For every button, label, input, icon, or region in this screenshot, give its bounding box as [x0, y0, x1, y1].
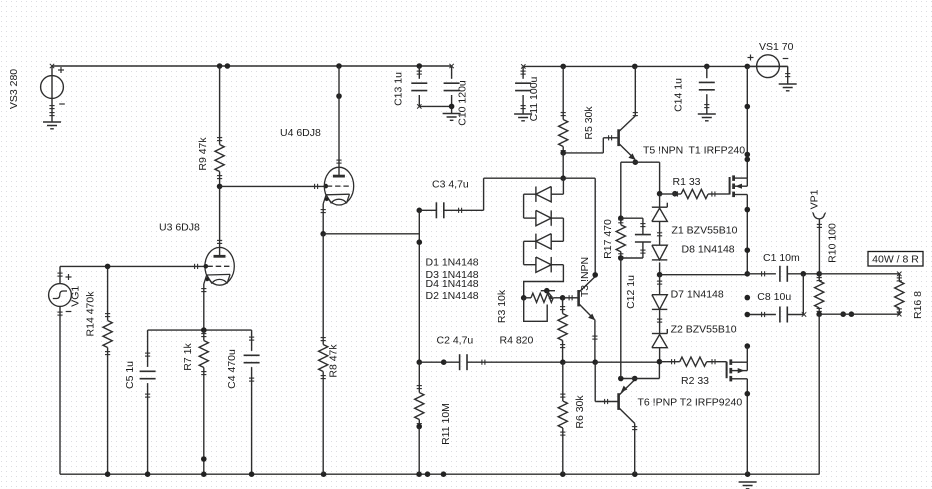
signal source VG1: [49, 266, 82, 474]
node C2 left: [441, 359, 447, 365]
svg-text:C14 1u: C14 1u: [673, 78, 685, 112]
node output-diodes: [657, 272, 663, 278]
wire R5 node down: [562, 153, 564, 178]
wire U4 plate: [336, 66, 341, 167]
capacitor C3 4,7u: [417, 179, 484, 219]
svg-text:R7 1k: R7 1k: [182, 343, 194, 371]
wire cathode node: [148, 329, 252, 331]
node rail-U4 plate: [336, 63, 342, 99]
node rail-R5: [560, 64, 566, 70]
voltage source VS3: [8, 66, 65, 122]
node Z2-R2: [657, 359, 663, 365]
svg-text:C10 120u: C10 120u: [457, 80, 469, 126]
svg-text:VP1: VP1: [809, 189, 821, 209]
transistor T3 NPN: [563, 257, 596, 320]
wire top rail V+ 70V: [521, 64, 788, 68]
node C2-R4-R6: [560, 359, 566, 365]
svg-text:C1 10m: C1 10m: [763, 252, 800, 264]
wire T2 drain seg: [746, 346, 748, 362]
resistor R5 30k: [559, 66, 595, 153]
svg-text:R1 33: R1 33: [673, 176, 701, 188]
svg-text:D8 1N4148: D8 1N4148: [682, 244, 735, 256]
zener Z1 BZV55B10: [652, 194, 738, 246]
resistor R11 10M: [415, 362, 452, 445]
svg-text:Z1 BZV55B10: Z1 BZV55B10: [672, 225, 738, 237]
wire to R16: [819, 272, 901, 276]
capacitor C12 1u: [621, 218, 651, 309]
svg-text:40W / 8 R: 40W / 8 R: [872, 254, 919, 266]
wire output return: [818, 314, 820, 474]
node C10 bottom: [449, 104, 455, 110]
svg-text:U3 6DJ8: U3 6DJ8: [159, 222, 200, 234]
svg-text:C5 1u: C5 1u: [124, 361, 136, 389]
wire top rail V+ 280V: [50, 64, 452, 68]
wire U3 cathode: [201, 284, 206, 330]
ground of VS3: [43, 122, 61, 129]
svg-text:VS1 70: VS1 70: [759, 41, 794, 53]
wire C2 row: [419, 361, 443, 363]
node R17 bottom: [618, 255, 624, 261]
node T1 source seg: [745, 207, 751, 301]
svg-text:D2 1N4148: D2 1N4148: [426, 290, 479, 302]
node T3e-T6 base: [592, 359, 598, 365]
wire cathode to C-row: [323, 233, 419, 235]
node rail-C13: [417, 63, 423, 69]
node T2 top: [745, 343, 751, 349]
capacitor C8 10u: [747, 274, 806, 323]
wire U4 cathode: [321, 204, 326, 234]
resistor R8 47k: [319, 234, 340, 474]
capacitor C4 470u: [226, 330, 260, 474]
svg-text:C3 4,7u: C3 4,7u: [432, 179, 469, 191]
node rail-R9: [217, 63, 230, 69]
node R17 bottom rail: [618, 376, 624, 382]
resistor R16 8: [895, 274, 924, 319]
diode D7 1N4148: [652, 275, 724, 334]
ground of C10: [443, 114, 461, 121]
svg-text:VS3 280: VS3 280: [8, 69, 20, 109]
node rail-C4: [249, 471, 255, 477]
capacitor C1 10m: [747, 252, 819, 282]
svg-text:C4 470u: C4 470u: [226, 349, 238, 389]
node mid: [417, 239, 423, 245]
resistor R2 33: [659, 357, 726, 387]
svg-text:C12 1u: C12 1u: [625, 275, 637, 309]
svg-text:VG1: VG1: [70, 286, 82, 307]
label U4: [280, 127, 321, 139]
svg-text:R14 470k: R14 470k: [85, 291, 97, 337]
capacitor C10 120u: [444, 64, 469, 126]
wire R10 bottom row: [819, 312, 901, 316]
node rail-R11: [416, 471, 446, 477]
svg-text:Z2 BZV55B10: Z2 BZV55B10: [671, 324, 737, 336]
diode D2 1N4148: [524, 210, 564, 225]
wire C3 to node: [484, 178, 596, 210]
wire row to T3e node: [563, 361, 595, 363]
svg-text:R17 470: R17 470: [602, 219, 614, 259]
node R7 lower: [201, 456, 207, 462]
wire D4 to pot: [524, 265, 564, 298]
wire R11 to rail: [418, 427, 420, 475]
node rail-T1 drain: [745, 64, 751, 70]
resistor R1 33: [660, 176, 730, 199]
node R3-R4-T3 base: [560, 295, 566, 301]
node C1-C8: [801, 271, 807, 277]
svg-text:T3 !NPN: T3 !NPN: [579, 257, 591, 297]
resistor R6 30k: [558, 362, 586, 474]
capacitor C14 1u: [673, 66, 715, 114]
wire D3-D4: [523, 241, 525, 264]
mosfet T1 IRFP240: [730, 175, 748, 273]
svg-text:C13 1u: C13 1u: [393, 72, 405, 106]
mosfet T2 IRFP9240: [727, 359, 748, 474]
capacitor C13 1u: [393, 66, 428, 109]
wire ground rail: [60, 473, 819, 475]
node T3 collector: [592, 272, 598, 278]
label D2: [426, 290, 479, 302]
wire D1-D2: [523, 194, 525, 218]
svg-text:D4 1N4148: D4 1N4148: [426, 278, 479, 290]
svg-text:D1 1N4148: D1 1N4148: [426, 256, 479, 268]
svg-text:R10 100: R10 100: [827, 223, 839, 263]
svg-text:R8 47k: R8 47k: [328, 344, 340, 378]
wire R17-T6: [620, 258, 622, 379]
node rail-R8: [321, 471, 327, 477]
transistor T6 PNP: [595, 362, 742, 474]
triode U4: [323, 167, 353, 205]
node rail-R14: [105, 471, 111, 477]
potentiometer R3 10k: [496, 288, 563, 323]
resistor R4 820: [558, 298, 567, 362]
probe VP1: [809, 189, 839, 273]
resistor R17 470: [602, 219, 625, 259]
wire U3 grid input: [60, 264, 208, 269]
node U3 cathode-R7: [201, 327, 207, 333]
wire U3 plate: [217, 186, 222, 247]
resistor R10 100: [815, 274, 824, 314]
ground of C11: [514, 114, 532, 121]
label R4: [500, 335, 534, 347]
svg-text:C8 10u: C8 10u: [757, 291, 791, 303]
svg-text:R5 30k: R5 30k: [583, 106, 595, 140]
triode U3: [204, 247, 235, 285]
resistor R9 47k: [197, 66, 224, 186]
load box 40W/8R: [868, 252, 923, 267]
node rail-ground: [745, 471, 751, 477]
node R9-U3 plate-U4 grid: [217, 184, 223, 190]
svg-text:R16 8: R16 8: [912, 291, 924, 319]
label D3: [426, 269, 479, 281]
wire node down to T3 collector: [594, 178, 596, 275]
node rail-R7: [201, 471, 207, 477]
capacitor C11 100u: [515, 66, 540, 121]
wire D1 feed: [562, 178, 564, 194]
resistor R14 470k: [85, 266, 113, 474]
node R5-T5 base: [560, 150, 566, 156]
wire D2-D3: [562, 218, 564, 241]
diode D8 1N4148: [652, 244, 735, 275]
ground of C14: [698, 114, 716, 121]
transistor T5 NPN: [563, 66, 745, 160]
wire U3 plate node to U4 grid: [220, 184, 329, 189]
node rail-C14: [704, 64, 710, 70]
resistor R7 1k: [182, 330, 208, 474]
svg-text:R3 10k: R3 10k: [496, 289, 508, 323]
diode D4 1N4148: [524, 257, 564, 272]
wire C3 left down: [418, 210, 420, 362]
svg-text:R11 10M: R11 10M: [440, 403, 452, 445]
node output: [745, 271, 751, 277]
node U4 cathode: [320, 231, 326, 237]
node d1: [745, 104, 751, 110]
zener Z2 BZV55B10: [652, 324, 737, 362]
label U3: [159, 222, 200, 234]
svg-text:R4 820: R4 820: [500, 335, 534, 347]
capacitor C5 1u: [124, 330, 156, 474]
wire diode node to output: [660, 274, 748, 276]
node R10 bottom: [816, 311, 854, 317]
wire Z2 node drop: [658, 362, 660, 379]
node R11 top: [417, 359, 423, 365]
wire T5e right: [635, 162, 659, 194]
diode D3 1N4148: [524, 234, 564, 249]
node rail-R6: [560, 471, 566, 477]
node rail-C5: [145, 471, 151, 477]
diode D1 1N4148: [524, 187, 564, 202]
node T2 bottom: [745, 391, 751, 397]
wire T3 emitter down: [592, 320, 597, 363]
label D1: [426, 256, 479, 268]
node T6 emitter: [632, 376, 638, 382]
node VG1-R14: [105, 264, 111, 270]
label D4: [426, 278, 479, 290]
wire T1 drain: [746, 66, 748, 178]
ground of VS1: [779, 84, 797, 91]
voltage source VS1: [747, 41, 793, 84]
node d2: [745, 152, 751, 163]
wire T5e left: [621, 162, 636, 218]
svg-text:U4 6DJ8: U4 6DJ8: [280, 127, 321, 139]
svg-text:R6 30k: R6 30k: [574, 395, 586, 429]
svg-text:R9 47k: R9 47k: [197, 137, 209, 171]
node T5 emitter: [633, 159, 639, 165]
svg-text:T5 !NPN T1 IRFP240: T5 !NPN T1 IRFP240: [643, 145, 745, 157]
node C1-R10: [816, 271, 822, 277]
ground symbol main: [739, 482, 757, 489]
wire C13-C10 bottom: [419, 105, 451, 107]
node rail-T5 collector: [632, 64, 638, 70]
node rail-T6 collector: [632, 471, 638, 477]
node C8 rail: [745, 312, 751, 318]
svg-text:D7 1N4148: D7 1N4148: [671, 289, 724, 301]
node C3-D1: [560, 175, 566, 181]
capacitor C2 4,7u: [437, 335, 563, 371]
wire row to Z2 node: [595, 361, 659, 363]
svg-text:C2 4,7u: C2 4,7u: [437, 335, 474, 347]
svg-text:T6 !PNP T2 IRFP9240: T6 !PNP T2 IRFP9240: [638, 397, 743, 409]
node R17 top: [618, 215, 624, 221]
node R11 bottom: [416, 424, 422, 430]
node Z1 top: [657, 191, 678, 197]
wire T6 emitter row: [621, 378, 660, 380]
svg-text:R2 33: R2 33: [681, 375, 709, 387]
